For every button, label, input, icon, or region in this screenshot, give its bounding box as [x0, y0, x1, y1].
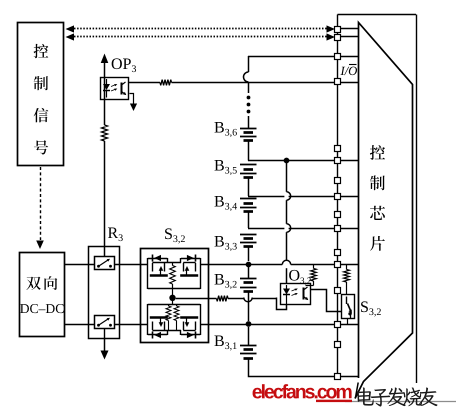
wire — [248, 212, 250, 228]
bridge mid node dot — [169, 295, 175, 301]
arrow up at OP3 top — [101, 54, 109, 64]
resistor R below OP3 — [102, 125, 108, 141]
gate resistor S3,2 — [346, 264, 348, 270]
wire1 S-box to battery tap — [200, 264, 248, 266]
label I/O with overline — [340, 67, 345, 75]
optocoupler O3,2 — [281, 284, 311, 305]
watermark elecfans.com — [253, 388, 262, 399]
battery cell B3,5 — [240, 164, 257, 166]
wire — [248, 141, 250, 161]
MOSFET pair bottom (Q with body diodes) — [147, 304, 149, 335]
gate resistor top center — [172, 263, 174, 266]
wire relay2 to box bottom — [104, 329, 106, 338]
ellipsis dots more cells — [247, 96, 251, 100]
control signal box 控制信号 — [18, 23, 64, 166]
wire1 DC-DC to relay1 — [65, 264, 95, 266]
transistor S3,2 switch — [342, 295, 355, 319]
pull-up resistor O3,2 collector — [313, 264, 315, 269]
gate resistors bottom center — [168, 304, 170, 306]
ground stub arrow below OP3 — [130, 94, 134, 105]
watermark gray line — [345, 401, 456, 403]
resistor on OP3 output wire — [129, 82, 160, 84]
wire OP3 output to chip pin — [172, 82, 336, 84]
O3,2 emitter staircase to S3,2 — [311, 290, 342, 312]
node dot wire2 battery tap — [246, 321, 252, 327]
wire2 relay2 to S-box — [115, 324, 148, 326]
node dot wire1 battery tap — [246, 262, 252, 268]
wire R3 bottom arrow — [104, 338, 106, 352]
dashed arrow control box to DC-DC — [40, 167, 42, 240]
chip pin bus line — [337, 15, 339, 377]
tap wire B3,6/B3,5 with node — [248, 160, 335, 162]
pin stub wires to chip body — [340, 28, 358, 30]
battery cell B3,2 — [248, 267, 250, 279]
wire battery top to chip pin — [248, 56, 335, 58]
relay box R3 — [89, 247, 120, 339]
dashed control bus arrow 1 — [74, 28, 328, 30]
bidirectional DC-DC box 双向DC-DC — [20, 253, 65, 337]
chip body outline — [355, 23, 413, 399]
wire S3,2 to wire2 — [347, 319, 349, 325]
battery line through hop region — [248, 292, 250, 322]
sampling line to O3,2 with hops — [286, 161, 288, 192]
chip pin squares — [335, 27, 341, 33]
hop of output wire over battery line — [244, 298, 252, 302]
staircase to O3,2 LED — [277, 298, 287, 310]
battery cell B3,3 — [240, 234, 257, 236]
tap wire B3,5/B3,4 — [248, 196, 284, 198]
relay box label R3 — [108, 228, 118, 238]
wire — [248, 178, 250, 196]
wire OP3 vertical — [104, 62, 106, 125]
switch box S3,2 — [141, 249, 209, 343]
wire2 DC-DC to relay2 — [65, 324, 95, 326]
relay contact 2 — [95, 316, 115, 329]
battery cell B3,4 — [240, 198, 257, 200]
battery cell B3,1 — [248, 327, 250, 345]
chip outer frame right — [416, 15, 418, 384]
relay contact 1 — [95, 257, 115, 270]
optocoupler label OP3 — [112, 58, 122, 69]
optocoupler label O3,2 — [289, 270, 299, 281]
MOSFET pair top (Q with body diodes) — [147, 258, 149, 289]
watermark 电子发烧友 — [357, 387, 374, 405]
optocoupler OP3 — [101, 78, 129, 100]
wire1 battery to chip with hop over sampling line — [248, 264, 282, 266]
transistor label S3,2 — [361, 301, 368, 312]
wire battery bottom — [249, 358, 336, 376]
tap wire B3,4/B3,3 — [248, 228, 284, 230]
wire1 relay1 to S-box — [115, 264, 148, 266]
switch box label S3,2 — [165, 228, 172, 239]
battery cell B3,6 — [240, 128, 257, 130]
chip outer frame top — [338, 14, 417, 16]
wire2 S-box to battery to chip — [200, 324, 335, 326]
dashed control bus arrow 2 — [74, 36, 328, 38]
wire — [248, 247, 250, 261]
chip text 控制芯片 — [370, 145, 385, 160]
bridge output wire with resistor — [176, 298, 208, 300]
